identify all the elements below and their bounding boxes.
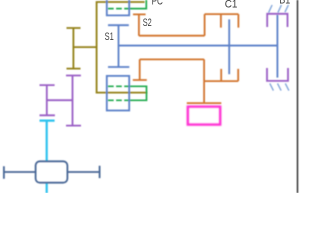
carrier dashed line (bottom planetary, upper) — [108, 85, 130, 87]
svg-text:C1: C1 — [225, 0, 238, 11]
sun gear S2 upper half (orange cap, stem and link to C1) — [133, 14, 205, 36]
carrier solid box (bottom planetary) — [130, 86, 147, 100]
svg-text:PC: PC — [152, 0, 163, 8]
frame border right — [297, 0, 299, 193]
output load box (magenta) — [188, 107, 220, 125]
sun gear S1 (blue bars and stem) — [108, 25, 129, 67]
differential box — [36, 161, 68, 182]
label S2 — [143, 17, 152, 30]
carrier PC dashed line (top planetary) — [108, 8, 130, 10]
label B1 — [279, 0, 290, 7]
brake B1 upper housing (purple) — [267, 14, 287, 27]
output gear mesh (cyan T) — [40, 121, 55, 162]
brake B1 lower housing (purple) — [267, 68, 288, 81]
ground hatching above B1 — [269, 5, 289, 13]
axle shaft right — [67, 166, 99, 178]
wire cyan below box — [46, 183, 48, 193]
label S1 — [105, 30, 114, 43]
ground hatching below B1 — [270, 83, 289, 90]
axle shaft left — [4, 166, 36, 179]
clutch C1 blade (blue) — [228, 19, 230, 74]
gear pair G2 left (purple H linkage) — [40, 76, 82, 126]
input gear pair I1 (olive I-beam with caps) — [67, 28, 81, 69]
carrier dashed line (bottom planetary, lower) — [108, 99, 130, 101]
main shaft axis — [119, 45, 278, 47]
svg-text:B1: B1 — [279, 0, 290, 7]
svg-text:S2: S2 — [143, 17, 152, 30]
planet pinion P2 (bottom blue rectangle) — [107, 76, 129, 111]
brake B1 blade (blue) — [276, 15, 278, 78]
wire to output flange — [203, 81, 205, 103]
output flange bar — [187, 102, 222, 104]
label PC — [152, 0, 163, 8]
ring gear shaft R1 (olive main vertical with top and mid horizontals) — [97, 2, 148, 93]
sun gear S2 lower half (orange cap, stem and link) — [133, 59, 204, 81]
carrier PC solid link (top) — [130, 0, 147, 9]
planet pinion P1 (top blue bracket) — [107, 0, 129, 15]
svg-text:S1: S1 — [105, 30, 114, 43]
wire input connector — [73, 46, 96, 48]
label C1 — [225, 0, 238, 11]
clutch C1 lower fork — [204, 69, 238, 81]
clutch C1 upper fork — [205, 14, 239, 28]
